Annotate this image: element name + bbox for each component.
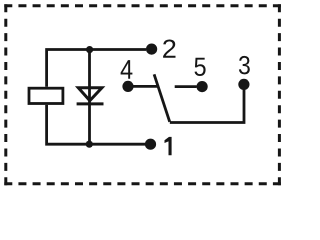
wire: bottom rail from coil branch to pin 1: [47, 105, 146, 144]
pin 3 label: [239, 56, 250, 75]
pin 4 label: [121, 60, 133, 79]
wire: pin 4 to switch blade: [128, 85, 158, 88]
wire: pin 5 open contact stub: [175, 85, 197, 88]
relay enclosure dashed outline: [4, 4, 281, 185]
wire: diode branch vertical: [88, 50, 91, 145]
pin 2 terminal: [146, 44, 157, 55]
pin 1 terminal: [145, 139, 156, 150]
pin 3 terminal: [238, 79, 249, 90]
pin 1 label: [165, 137, 172, 155]
pin 5 terminal: [197, 81, 208, 92]
relay coil K1: [29, 88, 63, 103]
junction node: bottom rail / diode: [86, 141, 93, 148]
wire: blade pivot rail to pin 3: [170, 88, 244, 123]
pin 5 label: [195, 58, 206, 76]
junction node: top rail / diode: [86, 46, 93, 53]
diode D1 (flyback diode across coil): [77, 88, 104, 104]
pin 2 label: [163, 40, 175, 58]
pin 4 terminal: [122, 81, 133, 92]
wire: top rail from coil branch to pin 2: [47, 50, 147, 87]
switch blade (movable contact): [154, 74, 170, 122]
